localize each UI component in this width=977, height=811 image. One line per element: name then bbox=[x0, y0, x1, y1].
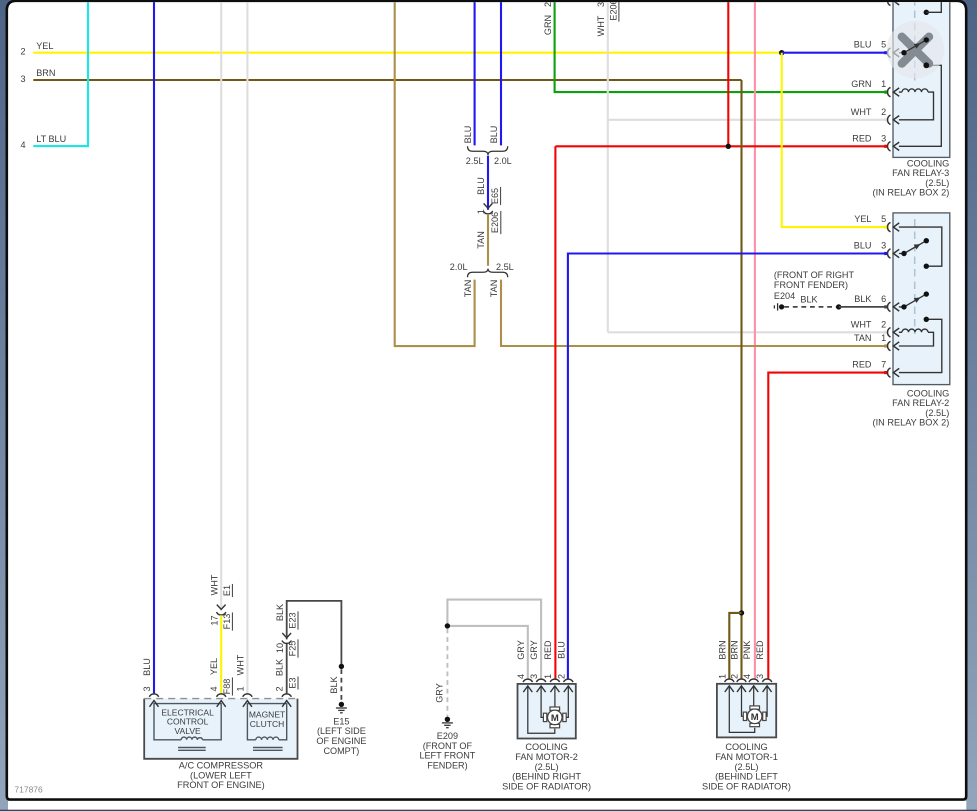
svg-text:2.0L: 2.0L bbox=[494, 156, 512, 166]
svg-text:GRY: GRY bbox=[516, 640, 526, 660]
wire BLU to relay-3 pin 5 bbox=[782, 52, 887, 54]
ground E204 bbox=[774, 303, 784, 310]
svg-text:E204: E204 bbox=[774, 291, 795, 301]
ECV box bbox=[154, 704, 221, 740]
svg-text:5: 5 bbox=[881, 214, 886, 224]
svg-text:TAN: TAN bbox=[854, 333, 872, 343]
wire GRY motor-2 pin 4 bbox=[447, 626, 527, 679]
label BLU BLU upper bbox=[463, 126, 499, 144]
svg-text:VALVE: VALVE bbox=[175, 726, 201, 736]
relay U3 coil bbox=[899, 89, 934, 120]
ground E209 bbox=[442, 717, 453, 728]
svg-text:PNK: PNK bbox=[742, 641, 752, 660]
svg-text:E65: E65 bbox=[490, 188, 500, 204]
svg-text:4: 4 bbox=[20, 140, 25, 150]
svg-text:SIDE OF RADIATOR): SIDE OF RADIATOR) bbox=[702, 781, 791, 791]
wire GRN to relay-3 pin 1 bbox=[555, 2, 887, 93]
magnet clutch coil bbox=[253, 737, 283, 750]
svg-text:3: 3 bbox=[881, 241, 886, 251]
svg-text:(IN RELAY BOX 2): (IN RELAY BOX 2) bbox=[873, 188, 950, 198]
node 4 label LT BLU bbox=[20, 134, 66, 150]
svg-text:2: 2 bbox=[543, 2, 553, 7]
dashed divider U2 bbox=[914, 219, 916, 334]
svg-text:A/C COMPRESSOR: A/C COMPRESSOR bbox=[179, 761, 264, 771]
svg-text:BLU: BLU bbox=[463, 126, 473, 144]
magnet clutch box bbox=[247, 704, 286, 740]
wire YEL to compressor pin 4 bbox=[220, 615, 222, 693]
svg-text:3: 3 bbox=[881, 133, 886, 143]
svg-text:OF ENGINE: OF ENGINE bbox=[316, 736, 366, 746]
svg-text:M: M bbox=[551, 713, 559, 724]
svg-text:RED: RED bbox=[852, 133, 872, 143]
svg-text:BLK: BLK bbox=[275, 604, 285, 621]
compressor pin 2 bbox=[275, 659, 298, 707]
svg-text:4: 4 bbox=[209, 686, 219, 691]
svg-text:WHT: WHT bbox=[851, 107, 872, 117]
svg-text:(IN RELAY BOX 2): (IN RELAY BOX 2) bbox=[873, 418, 950, 428]
svg-text:E3: E3 bbox=[287, 677, 297, 688]
svg-text:717876: 717876 bbox=[14, 785, 43, 795]
svg-text:BLU: BLU bbox=[489, 126, 499, 144]
svg-text:1: 1 bbox=[543, 674, 553, 679]
svg-text:COOLING: COOLING bbox=[725, 742, 767, 752]
label WHT E1 bbox=[209, 574, 232, 597]
motor-1 pin 2 bbox=[730, 640, 747, 692]
svg-text:MAGNET: MAGNET bbox=[249, 709, 285, 719]
svg-text:5: 5 bbox=[881, 40, 886, 50]
svg-text:GRN: GRN bbox=[543, 15, 553, 35]
svg-text:LT BLU: LT BLU bbox=[36, 134, 66, 144]
svg-text:BLK: BLK bbox=[854, 294, 871, 304]
relay U2 pin5 rail bbox=[899, 227, 942, 269]
label BLK dashed bbox=[800, 294, 817, 304]
svg-text:M: M bbox=[751, 712, 759, 723]
wire WHT main vertical bbox=[607, 2, 609, 333]
svg-text:1: 1 bbox=[235, 686, 245, 691]
svg-text:(FRONT OF RIGHT: (FRONT OF RIGHT bbox=[774, 270, 855, 280]
relay U3 pin 3 bbox=[852, 133, 899, 151]
compressor dashed top bbox=[144, 698, 297, 700]
wire BLK upper to E15 bbox=[287, 601, 342, 667]
relay U3 switch bbox=[899, 37, 929, 55]
svg-text:3: 3 bbox=[755, 674, 765, 679]
wire YEL vertical to relay-2 pin 5 bbox=[782, 53, 887, 227]
svg-text:10: 10 bbox=[275, 643, 285, 653]
wire WHT branch to relay-3 pin 2 bbox=[608, 119, 887, 121]
label 10 F25 bbox=[275, 639, 298, 657]
svg-text:2.5L: 2.5L bbox=[496, 262, 514, 272]
svg-text:SIDE OF RADIATOR): SIDE OF RADIATOR) bbox=[502, 781, 591, 791]
brace 2.0L/2.5L lower bbox=[468, 269, 508, 278]
svg-text:COMPT): COMPT) bbox=[323, 746, 359, 756]
svg-text:YEL: YEL bbox=[854, 214, 871, 224]
connector F25 bbox=[282, 633, 291, 643]
label GRY bbox=[435, 683, 445, 703]
svg-text:F13: F13 bbox=[222, 614, 232, 630]
node 2 label YEL bbox=[20, 41, 53, 57]
svg-text:WHT: WHT bbox=[235, 654, 245, 675]
svg-text:2: 2 bbox=[881, 319, 886, 329]
relay U3 pin 5 bbox=[854, 40, 899, 58]
svg-text:(2.5L): (2.5L) bbox=[734, 762, 758, 772]
wire YEL horizontal row 2 bbox=[33, 52, 781, 54]
relay U3 top pin bbox=[884, 0, 899, 6]
label BLK E15 bbox=[329, 676, 339, 693]
motor-1 symbol bbox=[743, 706, 766, 727]
wire GRY motor-2 pin 3 bbox=[447, 600, 541, 679]
wire RED vertical to motor-2 pin 1 bbox=[554, 146, 556, 678]
compressor pin 4 bbox=[209, 658, 232, 707]
wire BRN horizontal row 3 bbox=[33, 79, 741, 81]
wire BRN vertical bbox=[740, 80, 742, 679]
motor-2 pin 1 bbox=[543, 640, 560, 692]
label 2.0L upper bbox=[494, 156, 512, 166]
relay U2 switch 1 bbox=[899, 238, 929, 256]
svg-text:E15: E15 bbox=[333, 716, 349, 726]
junction BLK bbox=[836, 304, 841, 309]
svg-text:3: 3 bbox=[20, 74, 25, 84]
wire BLU relay-2 pin 3 to motor-2 pin 2 bbox=[568, 254, 887, 679]
wire BRN branch to motor-1 pin 1 bbox=[729, 613, 741, 679]
label 2.0L lower bbox=[450, 262, 468, 272]
svg-text:3: 3 bbox=[142, 686, 152, 691]
wire PNK from top to motor-1 pin 4 bbox=[754, 2, 756, 679]
motor-2 symbol bbox=[543, 707, 566, 728]
relay U3 blade overlay bbox=[901, 37, 929, 68]
label GRN pin 2 bbox=[543, 2, 553, 35]
wire BLK dashed to ground E15 bbox=[340, 669, 342, 701]
label 2.5L lower bbox=[496, 262, 514, 272]
svg-text:2.0L: 2.0L bbox=[450, 262, 468, 272]
ECV coil bbox=[178, 737, 206, 750]
svg-text:YEL: YEL bbox=[209, 658, 219, 675]
svg-text:WHT: WHT bbox=[851, 319, 872, 329]
motor-1 internal wires bbox=[729, 686, 767, 732]
svg-text:CLUTCH: CLUTCH bbox=[250, 719, 284, 729]
diagram id bbox=[14, 785, 43, 795]
wire BLU 2.0L right bbox=[500, 2, 502, 146]
svg-text:6: 6 bbox=[881, 294, 886, 304]
relay U2 pin 5 bbox=[854, 214, 899, 232]
label TAN merged bbox=[476, 231, 486, 249]
svg-text:4: 4 bbox=[742, 674, 752, 679]
svg-text:GRN: GRN bbox=[851, 79, 871, 89]
svg-text:F88: F88 bbox=[222, 679, 232, 695]
svg-text:FAN RELAY-2: FAN RELAY-2 bbox=[892, 398, 949, 408]
label TAN TAN lower bbox=[463, 280, 499, 298]
svg-text:E209: E209 bbox=[437, 731, 458, 741]
svg-text:3: 3 bbox=[529, 674, 539, 679]
svg-text:(FRONT OF: (FRONT OF bbox=[423, 741, 473, 751]
motor-1 box bbox=[717, 684, 776, 738]
svg-text:BLK: BLK bbox=[329, 676, 339, 693]
junction YEL-BLU bbox=[779, 50, 784, 55]
svg-text:BLU: BLU bbox=[854, 40, 872, 50]
wire LT BLU row 4 bbox=[33, 2, 88, 147]
label E209 bbox=[419, 731, 475, 770]
svg-text:BRN: BRN bbox=[730, 640, 740, 659]
motor-2 pin 4 bbox=[516, 640, 533, 692]
svg-text:WHT: WHT bbox=[596, 15, 606, 36]
svg-text:E206: E206 bbox=[490, 212, 500, 233]
svg-text:(2.5L): (2.5L) bbox=[925, 178, 949, 188]
svg-text:RED: RED bbox=[755, 640, 765, 660]
svg-text:E1: E1 bbox=[222, 585, 232, 596]
caption motor-1 bbox=[702, 742, 791, 791]
relay U3 NC contact bbox=[924, 0, 942, 15]
svg-text:2: 2 bbox=[20, 47, 25, 57]
motor-2 box bbox=[518, 684, 576, 739]
compressor pin 3 bbox=[142, 658, 159, 707]
wire TAN 2.0L from top bbox=[395, 2, 475, 347]
svg-text:BLU: BLU bbox=[556, 641, 566, 659]
caption relay-2 bbox=[873, 388, 950, 427]
svg-text:BLK: BLK bbox=[275, 659, 285, 676]
bottom edge strip bbox=[0, 810, 977, 811]
svg-text:7: 7 bbox=[881, 360, 886, 370]
label WHT pin 3 E206 bbox=[596, 0, 619, 36]
caption compressor bbox=[177, 761, 265, 791]
svg-text:2: 2 bbox=[556, 674, 566, 679]
wire BLU merged bbox=[487, 156, 489, 210]
svg-text:4: 4 bbox=[516, 674, 526, 679]
svg-text:COOLING: COOLING bbox=[525, 742, 567, 752]
svg-text:(2.5L): (2.5L) bbox=[535, 762, 559, 772]
relay box U2 bbox=[893, 213, 950, 385]
svg-text:LEFT FRONT: LEFT FRONT bbox=[419, 751, 475, 761]
svg-text:1: 1 bbox=[717, 674, 727, 679]
motor-1 pin 3 bbox=[755, 640, 772, 692]
svg-text:2: 2 bbox=[275, 686, 285, 691]
motor-2 pin 3 bbox=[529, 640, 546, 692]
label 1 E206 bbox=[476, 209, 501, 234]
svg-text:FRONT OF ENGINE): FRONT OF ENGINE) bbox=[177, 780, 265, 790]
svg-text:FENDER): FENDER) bbox=[427, 760, 467, 770]
wire RED relay-2 pin 7 bbox=[768, 373, 886, 679]
relay U2 pin7 rail bbox=[899, 317, 942, 373]
motor-2 pin 2 bbox=[556, 641, 573, 692]
svg-text:GRY: GRY bbox=[529, 640, 539, 660]
caption relay-3 bbox=[873, 158, 950, 197]
caption motor-2 bbox=[502, 742, 591, 791]
svg-text:WHT: WHT bbox=[209, 574, 219, 595]
svg-text:BLK: BLK bbox=[800, 294, 817, 304]
wire TAN merged bbox=[487, 214, 489, 266]
motor-2 internal wires bbox=[528, 686, 569, 733]
relay U3 NO contact to pin 3 bbox=[899, 63, 941, 147]
wire WHT from top to compressor pin 1 bbox=[246, 2, 248, 694]
white strip below page border bbox=[8, 801, 966, 810]
svg-text:BLU: BLU bbox=[854, 241, 872, 251]
wire BLU to compressor pin 3 bbox=[153, 2, 155, 694]
svg-text:2: 2 bbox=[730, 674, 740, 679]
wire BLK compressor pin 2 lower bbox=[286, 643, 288, 694]
svg-text:YEL: YEL bbox=[36, 41, 53, 51]
svg-text:GRY: GRY bbox=[435, 683, 445, 703]
svg-text:(LOWER LEFT: (LOWER LEFT bbox=[190, 770, 252, 780]
wire WHT from top to connector F13 bbox=[220, 2, 222, 611]
svg-text:FRONT FENDER): FRONT FENDER) bbox=[774, 280, 848, 290]
label E15 bbox=[316, 716, 366, 755]
svg-text:E23: E23 bbox=[287, 612, 297, 628]
svg-text:3: 3 bbox=[596, 2, 606, 7]
wire TAN 2.5L to relay-2 pin 1 bbox=[501, 280, 886, 346]
wire RED horizontal to relay-3 pin 3 bbox=[555, 145, 886, 147]
node 3 label BRN bbox=[20, 68, 55, 84]
relay box U3 bbox=[893, 0, 950, 157]
relay U2 coil bbox=[899, 329, 934, 346]
svg-text:(BEHIND RIGHT: (BEHIND RIGHT bbox=[512, 772, 581, 782]
svg-text:BLU: BLU bbox=[142, 658, 152, 676]
ground E15 bbox=[336, 702, 347, 713]
wire BLK to relay-2 pin 6 bbox=[839, 306, 887, 308]
svg-text:BLU: BLU bbox=[476, 177, 486, 195]
motor-1 pin 1 bbox=[717, 640, 734, 692]
svg-text:1: 1 bbox=[881, 333, 886, 343]
brace 2.5L/2.0L upper bbox=[468, 146, 508, 155]
relay U2 pin 1 bbox=[854, 333, 899, 351]
svg-text:1: 1 bbox=[476, 209, 486, 214]
svg-text:17: 17 bbox=[209, 615, 219, 625]
svg-text:FAN MOTOR-1: FAN MOTOR-1 bbox=[715, 752, 778, 762]
svg-text:TAN: TAN bbox=[463, 280, 473, 298]
junction RED bbox=[726, 144, 731, 149]
svg-text:(LEFT SIDE: (LEFT SIDE bbox=[317, 726, 366, 736]
svg-text:(BEHIND LEFT: (BEHIND LEFT bbox=[715, 772, 778, 782]
wire RED from top bbox=[727, 2, 729, 147]
relay U2 switch 2 bbox=[899, 291, 929, 309]
svg-text:RED: RED bbox=[543, 640, 553, 660]
relay U2 pin 2 bbox=[851, 319, 899, 337]
svg-text:TAN: TAN bbox=[476, 231, 486, 249]
junction GRY bbox=[445, 623, 450, 628]
svg-text:1: 1 bbox=[881, 79, 886, 89]
ECV text bbox=[161, 708, 214, 736]
wire GRY dashed to ground E209 bbox=[446, 629, 448, 717]
svg-text:BRN: BRN bbox=[36, 68, 55, 78]
label BLU E65 bbox=[476, 177, 501, 205]
junction BRN bbox=[739, 610, 744, 615]
compressor box bbox=[144, 699, 297, 759]
wire WHT to relay-2 pin 2 bbox=[608, 331, 887, 333]
label E204 block bbox=[774, 270, 855, 301]
dashed divider U3 bbox=[914, 0, 916, 85]
wire BLK dashed E204 bbox=[784, 306, 839, 308]
connector E206 bbox=[483, 203, 492, 213]
svg-text:2: 2 bbox=[881, 107, 886, 117]
svg-text:FAN MOTOR-2: FAN MOTOR-2 bbox=[515, 752, 578, 762]
svg-text:2.5L: 2.5L bbox=[466, 156, 484, 166]
relay U3 pin 1 bbox=[851, 79, 899, 97]
junction BLK E15 bbox=[339, 664, 344, 669]
svg-text:COOLING: COOLING bbox=[907, 158, 949, 168]
label BLK E23 bbox=[275, 604, 298, 630]
svg-text:E206: E206 bbox=[608, 0, 618, 21]
compressor pin 1 bbox=[235, 654, 252, 707]
relay U3 pin 2 bbox=[851, 107, 899, 125]
svg-text:RED: RED bbox=[852, 360, 872, 370]
svg-text:(2.5L): (2.5L) bbox=[925, 408, 949, 418]
relay U2 pin 7 bbox=[852, 360, 899, 378]
connector F13 bbox=[217, 605, 226, 615]
svg-text:BRN: BRN bbox=[717, 640, 727, 659]
motor-1 pin 4 bbox=[742, 641, 759, 692]
svg-text:FAN RELAY-3: FAN RELAY-3 bbox=[892, 168, 949, 178]
relay U2 pin 6 bbox=[854, 294, 899, 312]
magnet clutch text bbox=[249, 709, 285, 729]
close button bbox=[887, 21, 945, 79]
relay U2 pin 3 bbox=[854, 241, 899, 259]
wire BLU 2.5L left bbox=[474, 2, 476, 146]
label 17 F13 bbox=[209, 612, 232, 630]
svg-text:TAN: TAN bbox=[489, 280, 499, 298]
label 2.5L upper bbox=[466, 156, 484, 166]
svg-text:COOLING: COOLING bbox=[907, 388, 949, 398]
